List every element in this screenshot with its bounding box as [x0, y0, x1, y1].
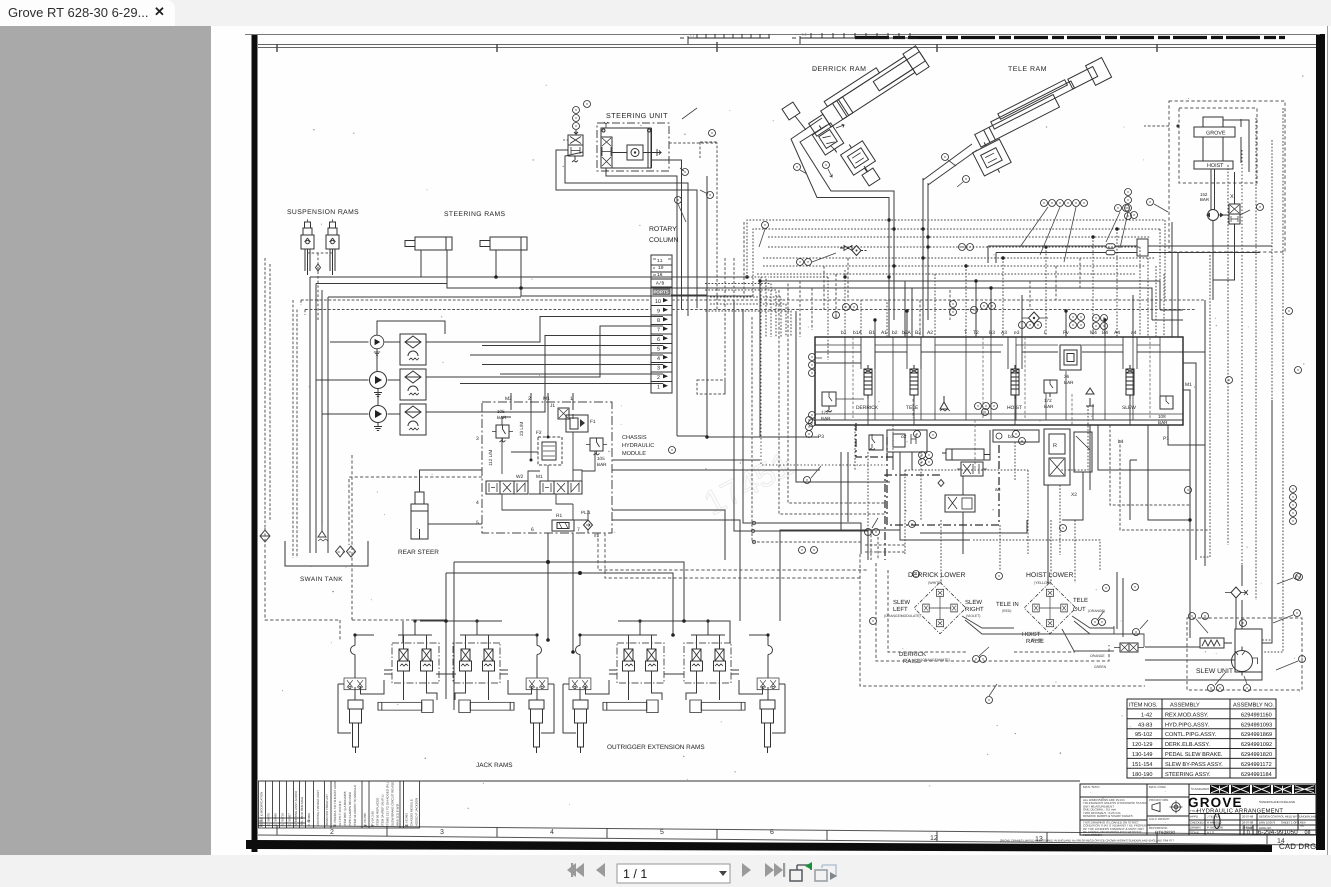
svg-text:DESIGN CONTROL HELD BY SUNDERL: DESIGN CONTROL HELD BY SUNDERLAND ENG — [1259, 815, 1324, 819]
sub assembly o2 — [887, 430, 927, 452]
wire solid pedal outputs — [962, 616, 1144, 651]
hose connector fitting — [1114, 643, 1144, 652]
svg-text:PERMISSION: PERMISSION — [1083, 833, 1102, 837]
svg-text:-: - — [1090, 790, 1091, 794]
svg-text:STEERING ASSY ADDED: STEERING ASSY ADDED — [294, 790, 298, 826]
frame top thin line — [245, 34, 1320, 36]
svg-text:02: 02 — [260, 824, 264, 828]
check valve on tank column — [318, 525, 328, 541]
wire left dashed into rotary row10 — [301, 299, 651, 301]
module relief valve A — [492, 425, 513, 442]
svg-text:HYDRAULIC ARRANGEMENT: HYDRAULIC ARRANGEMENT — [1197, 808, 1283, 815]
svg-text:6294991092: 6294991092 — [1241, 742, 1272, 748]
balloon cluster top right — [1041, 200, 1088, 207]
derrick item balloons — [794, 164, 801, 171]
svg-text:CHASSIS: CHASSIS — [622, 435, 647, 441]
svg-text:STEERING ASSY.: STEERING ASSY. — [1165, 772, 1211, 778]
thick dash-dot subcircuit borders — [856, 423, 999, 560]
svg-text:112 L/M: 112 L/M — [488, 450, 493, 466]
title block frame — [1080, 784, 1316, 835]
derrick pad square B — [862, 168, 880, 186]
wire solid bus mid — [671, 281, 991, 437]
tele item balloons — [942, 154, 949, 161]
svg-text:D: D — [1247, 830, 1251, 836]
svg-text:b4: b4 — [1118, 439, 1124, 445]
svg-text:JACK RAMS: JACK RAMS — [476, 762, 513, 769]
bank pilot block 36BAR — [1060, 345, 1081, 370]
svg-text:6-294-991050: 6-294-991050 — [1258, 829, 1298, 836]
module internal wires — [502, 410, 595, 533]
svg-text:PL.1: PL.1 — [581, 510, 591, 515]
svg-text:W2: W2 — [516, 474, 524, 480]
sheet heavy border left — [252, 34, 258, 852]
hoist brake valve — [1229, 198, 1240, 230]
leader arrows — [800, 169, 832, 177]
wire rotary row9 dashed to right — [672, 309, 1196, 311]
wire pump suctions to tank columns — [316, 342, 369, 414]
svg-text:PORTS: PORTS — [654, 290, 669, 295]
wire dashed below bank — [855, 300, 1015, 540]
arrow marks on derrick manifold — [831, 124, 844, 151]
svg-text:6294991172: 6294991172 — [1241, 762, 1272, 768]
svg-text:DERRICK LOWER: DERRICK LOWER — [908, 572, 965, 579]
svg-text:20-07-88: 20-07-88 — [1242, 821, 1254, 825]
module port stubs — [511, 393, 573, 410]
outrigger cluster 1 — [338, 619, 456, 753]
svg-text:SCALE: SCALE — [1190, 831, 1199, 835]
slew unit motor — [1232, 629, 1263, 676]
wire rear steer to module — [420, 470, 483, 524]
derrick manifold 1 — [810, 120, 846, 159]
wire bottom dashed loop A — [352, 455, 420, 620]
svg-text:105: 105 — [497, 409, 505, 414]
wire o2 return — [920, 520, 1027, 533]
svg-text:(ORANGE/MODULATE): (ORANGE/MODULATE) — [884, 614, 920, 618]
mid solenoid valve — [957, 462, 987, 476]
svg-text:17451: 17451 — [698, 445, 799, 523]
svg-text:6: 6 — [531, 527, 534, 533]
long rule above tables — [258, 780, 1080, 782]
svg-text:SHEET 1 OF 1: SHEET 1 OF 1 — [1281, 821, 1300, 825]
wire left dashed into rotary row9 — [305, 309, 651, 311]
svg-text:23 L/M: 23 L/M — [519, 422, 524, 436]
wire dashed between suspension rams — [307, 218, 333, 320]
bottom zone ticks and numbers — [277, 825, 1267, 844]
svg-text:3: 3 — [440, 829, 444, 836]
svg-text:05: 05 — [333, 824, 337, 828]
wire bus t5 — [763, 257, 1155, 259]
wire pump2 to filter2 — [388, 379, 401, 381]
filter F3 — [400, 404, 426, 435]
svg-text:6294991820: 6294991820 — [1241, 752, 1272, 758]
svg-text:STEERING RAMS: STEERING RAMS — [444, 211, 506, 218]
svg-text:7: 7 — [657, 328, 660, 334]
svg-text:4: 4 — [550, 829, 554, 836]
svg-text:DRN 1/50/79: DRN 1/50/79 — [1259, 821, 1276, 825]
svg-text:95-102: 95-102 — [1135, 732, 1152, 738]
svg-text:ITEM NOS.: ITEM NOS. — [1129, 703, 1158, 709]
svg-text:08: 08 — [1305, 830, 1311, 836]
node diamond a3 — [938, 480, 944, 487]
svg-text:1 1: 1 1 — [690, 34, 695, 38]
derrick feed outline outer — [791, 118, 889, 263]
svg-text:1 2: 1 2 — [802, 33, 807, 37]
svg-text:SWAIN TANK: SWAIN TANK — [300, 576, 343, 583]
wire solid loop below hoist — [905, 281, 1183, 337]
svg-text:RIGHT: RIGHT — [965, 606, 984, 613]
hoist right rails — [1223, 119, 1249, 172]
disconnect coupling — [840, 246, 867, 256]
tele manifold — [971, 136, 1013, 180]
derrick pad square A — [782, 102, 800, 120]
wire bus t2 — [753, 229, 1160, 296]
hoist drop pair — [1211, 169, 1215, 210]
svg-text:PROJECTION: PROJECTION — [1149, 798, 1168, 802]
bank interior port drops — [845, 337, 1160, 420]
svg-text:8: 8 — [657, 318, 660, 324]
wire solid riser group — [875, 281, 1133, 337]
svg-text:MATL CODE: MATL CODE — [1149, 785, 1166, 789]
svg-text:CAD DRG: CAD DRG — [1279, 842, 1316, 851]
dashed stub into hoist box — [1144, 125, 1178, 127]
wire filter outputs to rotary ports — [426, 317, 663, 413]
module F1 valve — [566, 415, 588, 432]
svg-text:CHECKED: CHECKED — [1190, 821, 1204, 825]
module F2 valve — [538, 437, 562, 465]
svg-text:TELE: TELE — [906, 405, 919, 411]
sheet heavy border right — [1316, 34, 1325, 850]
labels around derrick diamond — [893, 599, 984, 613]
svg-text:F2: F2 — [536, 430, 542, 436]
svg-text:4: 4 — [657, 356, 660, 362]
rear steer cylinder — [411, 492, 428, 539]
toolbar icons — [0, 855, 1331, 887]
svg-text:ITEM 56 REPLACED: ITEM 56 REPLACED — [376, 797, 380, 826]
svg-text:(VIOLET): (VIOLET) — [966, 614, 980, 618]
svg-text:TELE IN: TELE IN — [996, 601, 1019, 608]
svg-text:2: 2 — [330, 829, 334, 836]
svg-text:36: 36 — [1064, 374, 1070, 379]
svg-text:-: - — [1165, 821, 1166, 825]
dashed verticals right of column — [725, 222, 744, 394]
spool riser stubs — [861, 337, 1137, 425]
svg-text:HYD.PIPG.ASSY.: HYD.PIPG.ASSY. — [1165, 722, 1209, 728]
svg-text:1-42: 1-42 — [1141, 712, 1152, 718]
derrick ram body — [803, 43, 929, 138]
svg-text:6294991869: 6294991869 — [1241, 732, 1272, 738]
wire bus t4 — [768, 246, 1140, 248]
pump interconnect wire — [377, 321, 391, 405]
mid cylinder symbol — [942, 449, 990, 460]
svg-text:OUTRIGGER EXTENSION RAMS: OUTRIGGER EXTENSION RAMS — [607, 744, 705, 751]
wire pedal to slew run — [1145, 643, 1262, 680]
port arrows — [663, 298, 668, 388]
scattered balloons — [669, 197, 1303, 636]
svg-text:CHASSIS MODULE: CHASSIS MODULE — [410, 799, 414, 826]
spool TELE — [910, 365, 918, 399]
svg-text:b2: b2 — [892, 330, 898, 336]
svg-text:ORANGE: ORANGE — [1090, 654, 1105, 658]
svg-text:6294991160: 6294991160 — [1241, 712, 1272, 718]
wire bundle mid-left dashed — [752, 284, 885, 543]
projection symbol — [1152, 801, 1183, 814]
derrick manifold 2 — [838, 138, 877, 179]
long vertical from column area down — [707, 176, 760, 437]
sub assembly P3 — [869, 434, 883, 450]
outrigger cluster 2 (mirrored) — [436, 619, 554, 753]
svg-text:COLUMN: COLUMN — [649, 237, 679, 244]
svg-text:5: 5 — [657, 347, 660, 353]
frame top double line — [258, 45, 1316, 48]
svg-text:16: 16 — [657, 272, 663, 278]
svg-text:ALT.PH.7.10 E.B.C: ALT.PH.7.10 E.B.C — [338, 800, 342, 826]
svg-text:9: 9 — [657, 309, 660, 315]
svg-text:2: 2 — [657, 375, 660, 381]
svg-text:APP'D: APP'D — [1190, 815, 1198, 819]
svg-text:A/B: A/B — [656, 281, 665, 287]
svg-text:3: 3 — [657, 366, 660, 372]
item balloons above steering valve — [573, 107, 580, 114]
svg-text:6294991184: 6294991184 — [1241, 772, 1272, 778]
svg-text:REX.MOD.ASSY.: REX.MOD.ASSY. — [1165, 712, 1209, 718]
svg-text:TELE: TELE — [1073, 597, 1088, 604]
svg-text:10: 10 — [655, 299, 661, 305]
tank columns dashed — [293, 300, 305, 558]
svg-text:HOIST: HOIST — [1207, 163, 1224, 169]
svg-text:105: 105 — [597, 456, 605, 461]
wire staircase corners into bank top — [705, 277, 791, 337]
svg-text:CONTROL HANDLE ASSY: CONTROL HANDLE ASSY — [316, 790, 320, 826]
svg-text:3: 3 — [476, 436, 479, 442]
wire pad A to collar — [795, 116, 806, 130]
bottom frame line — [258, 826, 1316, 835]
lower solenoid valve — [945, 495, 975, 512]
svg-text:PIPE CLAMPS REVISED: PIPE CLAMPS REVISED — [348, 791, 352, 826]
svg-text:E.I 56490: E.I 56490 — [274, 813, 278, 826]
wire dashed to pedals from module — [598, 533, 868, 578]
sub assembly b4 box — [1074, 432, 1092, 472]
svg-text:180-190: 180-190 — [1132, 772, 1153, 778]
svg-text:BAR: BAR — [1064, 380, 1074, 385]
revision table — [259, 781, 420, 828]
wire dashed loop inner — [888, 570, 1075, 652]
svg-text:PEDAL SLEW BRAKE.: PEDAL SLEW BRAKE. — [1165, 752, 1223, 758]
wire pump3 to filter3 — [388, 413, 401, 415]
wire dashed stub — [700, 142, 717, 158]
balloon cluster near Pv — [1070, 314, 1108, 330]
hoist unit outer dashed enclosure — [1169, 101, 1285, 252]
wire from unit bottom — [606, 168, 677, 436]
wire motor to valve — [1213, 172, 1249, 252]
junction dots distribution — [444, 560, 686, 637]
svg-text:STEERING UNIT: STEERING UNIT — [606, 111, 668, 120]
svg-text:4: 4 — [476, 500, 479, 506]
svg-text:X2: X2 — [1071, 492, 1077, 498]
wire bus t1 — [747, 220, 1165, 277]
wire below bank long runs — [780, 452, 970, 621]
balloons near diamonds — [996, 573, 1003, 580]
balloons row 123 — [975, 403, 998, 410]
svg-text:ITEM 3A (REF 34) (P.L): ITEM 3A (REF 34) (P.L) — [381, 795, 385, 826]
svg-text:ROTARY: ROTARY — [649, 226, 677, 233]
outrigger cluster 3 — [563, 619, 681, 753]
svg-text:MODULE: MODULE — [622, 451, 646, 457]
wire bottom right risers — [963, 430, 1048, 583]
derrick lower pedal valve diamond — [914, 582, 966, 633]
labels around hoist diamond — [996, 597, 1088, 645]
filter F2 — [400, 369, 426, 400]
svg-text:01: 01 — [260, 819, 264, 823]
top ruler numbers — [690, 33, 807, 38]
svg-text:HOIST: HOIST — [1007, 405, 1022, 411]
steering ram right — [480, 237, 527, 250]
junction dots module — [530, 436, 575, 654]
svg-text:E.I 56807: E.I 56807 — [288, 813, 292, 826]
hoist motor — [1208, 210, 1219, 221]
svg-text:1: 1 — [657, 385, 660, 391]
svg-text:5: 5 — [476, 520, 479, 526]
svg-text:08: 08 — [405, 824, 409, 828]
filter F1 — [400, 334, 426, 365]
wire bus t6 — [763, 265, 1145, 267]
svg-text:REAR STEER: REAR STEER — [398, 549, 439, 556]
svg-text:HOL MOD REM MAG: HOL MOD REM MAG — [300, 796, 304, 826]
svg-text:(RED): (RED) — [1002, 609, 1011, 613]
svg-text:6294991093: 6294991093 — [1241, 722, 1272, 728]
node diamond on suspension drop — [316, 264, 321, 271]
module relief valve B — [586, 438, 607, 455]
svg-text:7: 7 — [577, 527, 580, 533]
svg-text:F1: F1 — [590, 419, 596, 425]
svg-text:ITEMS 151 TO 154 ADDED (P.L): ITEMS 151 TO 154 ADDED (P.L) — [386, 782, 390, 826]
svg-text:ASSEMBLY NO.: ASSEMBLY NO. — [1233, 703, 1275, 709]
svg-text:6: 6 — [657, 337, 660, 343]
svg-text:SLEW: SLEW — [1122, 405, 1136, 411]
module bottom drops — [548, 533, 573, 652]
bank port labels — [841, 330, 1137, 336]
svg-text:43-83: 43-83 — [1138, 722, 1152, 728]
wire manifold2 to pad B — [864, 166, 868, 172]
svg-text:04: 04 — [307, 819, 311, 823]
dashed bus top-middle going right — [747, 108, 1283, 652]
spool SLEW — [1126, 365, 1134, 399]
wire dashed loop mid — [876, 563, 1109, 661]
module dashed feed to tank — [349, 477, 482, 545]
svg-text:12: 12 — [930, 835, 938, 842]
tank columns solid — [310, 277, 328, 553]
frame top zone ticks — [277, 42, 1157, 52]
svg-text:A1: A1 — [881, 330, 887, 336]
sheet heavy border bottom — [246, 840, 1272, 852]
wire dashed risers left of bank — [768, 277, 828, 360]
svg-text:A2: A2 — [927, 330, 933, 336]
svg-text:SLEW UNIT: SLEW UNIT — [1196, 668, 1233, 675]
wire module outputs to rotary ports — [460, 346, 663, 384]
svg-text:STANDARDS: STANDARDS — [1191, 787, 1209, 791]
bank small check mid — [940, 396, 950, 411]
sub assembly b3 — [993, 430, 1039, 442]
Pv diamond — [1029, 312, 1040, 324]
svg-text:DERK.ELB.ASSY.: DERK.ELB.ASSY. — [1165, 742, 1210, 748]
svg-text:E.I 59168 A.T.B.Y.B.B.B.BT AD: E.I 59168 A.T.B.Y.B.B.B.BT ADDED — [333, 778, 337, 826]
hoist drum — [1194, 117, 1235, 169]
svg-text:WAS 1(1) E.W.B: WAS 1(1) E.W.B — [396, 804, 400, 826]
wire right risers from pedals — [1117, 572, 1123, 637]
item table — [1127, 699, 1276, 778]
wire verticals into bank top dashed — [845, 229, 1117, 337]
steering unit gerotor assembly — [601, 122, 661, 168]
module valve W2 — [486, 481, 528, 494]
svg-text:(WHITE): (WHITE) — [928, 581, 942, 585]
wire module to bank lower — [612, 436, 820, 621]
balloon pair mid — [959, 244, 966, 251]
suspension ram left — [301, 222, 314, 275]
slew unit balloons — [1189, 613, 1196, 620]
svg-text:DRAWN: DRAWN — [1190, 826, 1200, 830]
svg-text:B3: B3 — [989, 330, 995, 336]
junction dots — [494, 275, 749, 290]
svg-text:e3: e3 — [1014, 330, 1020, 336]
svg-text:5: 5 — [660, 829, 664, 836]
svg-text:CONTL.PIPG.ASSY.: CONTL.PIPG.ASSY. — [1165, 732, 1217, 738]
svg-text:GROVE: GROVE — [1206, 131, 1226, 137]
tele feed diagonal pair — [923, 144, 977, 185]
hoist unit inner dashed enclosure — [1179, 108, 1257, 183]
module valve M1 — [540, 481, 582, 494]
svg-text:BAR: BAR — [597, 462, 607, 467]
tank inlet diamonds — [336, 546, 356, 557]
svg-text:SLEW BRAKE CIRCUIT REVISED: SLEW BRAKE CIRCUIT REVISED — [391, 779, 395, 826]
top ruler cluster 2 — [792, 33, 918, 44]
tank outline — [285, 541, 368, 566]
svg-text:X: X — [1230, 194, 1234, 200]
svg-text:E.I 56719: E.I 56719 — [281, 813, 285, 826]
wire dashed pedal feeds — [905, 470, 1100, 583]
rotary column block — [651, 255, 672, 393]
svg-text:RT628/30: RT628/30 — [1155, 830, 1176, 835]
module J1 pilot — [558, 408, 569, 419]
svg-text:REMOVED FROM LIST: REMOVED FROM LIST — [325, 794, 329, 826]
svg-text:E.I 58870: E.I 58870 — [267, 813, 271, 826]
svg-text:ADDED P JACKSON: ADDED P JACKSON — [415, 798, 419, 826]
bus left ends turning down — [310, 277, 521, 297]
wire inner loop — [565, 152, 688, 316]
wire solid right loops — [1148, 352, 1205, 638]
tele feed verticals — [923, 178, 928, 263]
svg-text:GREEN: GREEN — [1094, 665, 1107, 669]
steering pilot valve — [563, 130, 583, 162]
wire pump1 to filter1 — [384, 321, 445, 342]
svg-text:6: 6 — [770, 829, 774, 836]
bank relief valve left — [822, 392, 836, 412]
bank mid relief — [1044, 380, 1057, 397]
svg-text:B1: B1 — [869, 330, 875, 336]
svg-text:SLEW BY-PASS ASSY.: SLEW BY-PASS ASSY. — [1165, 762, 1223, 768]
svg-text:MATL SPEC: MATL SPEC — [1083, 785, 1101, 789]
wire rotary row10 dashed to right — [672, 299, 1205, 301]
svg-text:b1: b1 — [841, 330, 847, 336]
hose coupler runs right — [988, 239, 1272, 263]
title block signature rows — [1190, 815, 1324, 835]
svg-text:o2: o2 — [901, 434, 907, 440]
svg-text:SUNDERLAND ENGLAND: SUNDERLAND ENGLAND — [1259, 800, 1296, 804]
svg-text:ITEM 34 ADDED TO MODULE: ITEM 34 ADDED TO MODULE — [353, 785, 357, 826]
steering ram left — [405, 237, 452, 250]
svg-text:06: 06 — [364, 824, 368, 828]
balloon row bank top — [833, 301, 1302, 374]
svg-text:REMOVE BURRS & SHARP EDGES: REMOVE BURRS & SHARP EDGES — [1083, 814, 1133, 818]
svg-text:120-129: 120-129 — [1132, 742, 1153, 748]
